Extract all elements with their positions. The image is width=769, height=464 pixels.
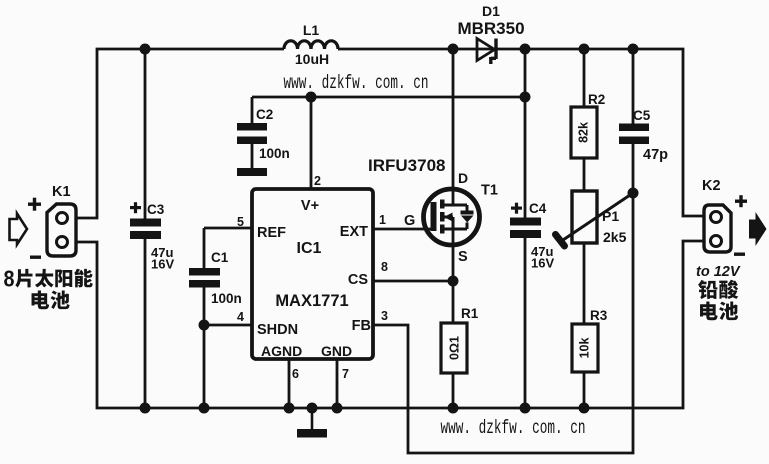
wire: C5 branch from output rail [632, 49, 635, 124]
T1 body diode [461, 211, 474, 215]
C3 plus sign [130, 206, 141, 209]
svg-text:CS: CS [348, 272, 368, 288]
K2 pin 1 circle [711, 212, 722, 223]
wire: R2 to P1 lead [583, 157, 586, 192]
svg-text:1: 1 [379, 213, 386, 227]
wire: C2 leads [251, 97, 254, 168]
node: ground rail / R3 [579, 403, 590, 414]
svg-text:R3: R3 [590, 308, 608, 323]
svg-text:D1: D1 [482, 3, 500, 19]
K2 plus sign [735, 200, 747, 203]
T1 gate bar [431, 202, 437, 231]
node: output rail / R2 junction [579, 44, 590, 55]
svg-text:SHDN: SHDN [257, 322, 298, 338]
svg-text:5: 5 [237, 215, 244, 229]
K2 text: battery [700, 302, 718, 321]
node: ground rail / pin 6 [284, 403, 295, 414]
svg-text:16V: 16V [151, 257, 174, 272]
node: diode cathode output junction [520, 44, 531, 55]
wire: C5 to wiper node [632, 143, 635, 193]
wire: CS sense lead [372, 280, 453, 283]
wire: R2 top lead from output rail [583, 49, 586, 108]
svg-text:82k: 82k [577, 122, 591, 143]
svg-text:C3: C3 [147, 202, 165, 217]
svg-text:MBR350: MBR350 [457, 19, 524, 38]
wire: top rail from L1 to K2 plus [338, 49, 705, 216]
svg-text:G: G [404, 213, 415, 229]
inductor L1 [284, 41, 338, 49]
node: ground rail / pin 7 [332, 403, 343, 414]
node: ground rail / C4 [520, 403, 531, 414]
wire: FB feedback loop [372, 193, 633, 453]
wire: diode output branch down through C4 [524, 49, 527, 408]
wire: R1 lead to ground rail [452, 372, 455, 408]
diode D1 MBR350 (schottky) [477, 39, 495, 61]
svg-text:www. dzkfw. com. cn: www. dzkfw. com. cn [441, 417, 586, 439]
svg-text:2k5: 2k5 [603, 229, 627, 245]
svg-text:C2: C2 [256, 107, 273, 122]
capacitor C1 [189, 268, 220, 276]
svg-text:4: 4 [237, 310, 244, 324]
op-amp/controller IC1 MAX1771 box [252, 189, 373, 359]
svg-text:REF: REF [257, 225, 286, 241]
svg-text:V+: V+ [301, 198, 319, 214]
wire: IC1 pin 6 lead [288, 358, 291, 408]
wire: T1 drain lead from top rail [452, 49, 455, 205]
K1 pin 2 circle [57, 237, 68, 248]
svg-text:MAX1771: MAX1771 [275, 292, 348, 310]
wire: K1 plus lead, left riser and top rail to L1 [76, 49, 284, 218]
svg-text:L1: L1 [303, 22, 320, 38]
ground symbol at C2 [237, 168, 267, 176]
svg-text:7: 7 [342, 367, 349, 381]
svg-text:T1: T1 [481, 183, 498, 199]
svg-text:R2: R2 [588, 92, 605, 107]
svg-text:to 12V: to 12V [696, 264, 741, 280]
svg-text:100n: 100n [259, 146, 290, 161]
K2 text: lead-acid [698, 280, 717, 299]
connector K2 body [704, 205, 731, 252]
potentiometer P1 body [572, 191, 597, 243]
node: ground rail / R1 [448, 403, 459, 414]
svg-text:D: D [458, 170, 468, 186]
wire: EXT gate lead [372, 228, 432, 231]
svg-text:S: S [458, 249, 468, 265]
node: ground rail / C3 [140, 403, 151, 414]
svg-text:16V: 16V [531, 256, 554, 271]
svg-text:3: 3 [381, 309, 388, 323]
node: ground rail / ground symbol [307, 403, 318, 414]
wire: K1 minus lead, bottom ground rail to K2 minus [76, 241, 705, 408]
transistor T1 IRFU3708 circle [424, 189, 480, 245]
K1 plus sign [28, 203, 41, 206]
node: top rail / T1 drain junction [448, 44, 459, 55]
wire: IC1 pin 2 riser [310, 97, 313, 191]
svg-text:K1: K1 [52, 184, 71, 200]
wire: R3 lead to ground rail [583, 371, 586, 408]
svg-text:47p: 47p [643, 147, 668, 163]
svg-text:C1: C1 [211, 250, 229, 265]
K1 text: battery line 2 [32, 291, 50, 310]
node: P1 wiper / C5 / FB junction [628, 188, 639, 199]
node: output rail / C5 junction [628, 44, 639, 55]
T1 body arrow [444, 213, 453, 222]
svg-text:10uH: 10uH [295, 51, 329, 67]
node: V+ line / output branch junction [520, 92, 531, 103]
svg-text:FB: FB [352, 318, 371, 334]
svg-text:100n: 100n [211, 291, 242, 306]
K2 pin 2 circle [711, 236, 722, 247]
connector K1 body [47, 204, 76, 256]
svg-text:EXT: EXT [340, 224, 368, 240]
capacitor C4 (polarized) [510, 218, 541, 226]
capacitor C3 (polarized) [130, 219, 161, 227]
svg-text:0Ω1: 0Ω1 [448, 336, 462, 360]
resistor R1 [441, 323, 467, 373]
wire: V+ supply line [252, 96, 525, 99]
svg-text:8: 8 [4, 266, 15, 292]
node: ground rail / SHDN branch [199, 403, 210, 414]
wire: T1 source lead to R1 [452, 229, 455, 324]
resistor R2 [571, 107, 597, 158]
K1 pin 1 circle [57, 213, 68, 224]
ground symbol (main) [311, 408, 314, 429]
svg-text:8: 8 [381, 260, 388, 274]
svg-text:IC1: IC1 [297, 240, 322, 257]
svg-text:6: 6 [292, 367, 299, 381]
T1 channel bars [440, 200, 445, 209]
svg-text:R1: R1 [461, 306, 479, 321]
svg-text:2: 2 [314, 174, 321, 188]
svg-text:K2: K2 [702, 178, 721, 194]
svg-text:10k: 10k [578, 338, 592, 359]
P1 wiper arm [560, 193, 633, 242]
wire: REF lead, C1 branch and SHDN lead to ground [204, 228, 253, 408]
node: C1 / SHDN junction [199, 320, 210, 331]
wire: IC1 pin 7 lead [336, 358, 339, 408]
node: CS / source junction [448, 276, 459, 287]
wire: C3 branch [144, 49, 147, 408]
capacitor C2 [237, 123, 267, 131]
svg-text:GND: GND [321, 343, 352, 359]
svg-text:IRFU3708: IRFU3708 [368, 156, 445, 175]
P1 wiper end stroke [556, 235, 565, 247]
K1 input arrow [10, 214, 28, 245]
C4 plus sign [511, 207, 522, 210]
T1 internal connections [442, 205, 467, 229]
svg-text:www. dzkfw. com. cn: www. dzkfw. com. cn [284, 72, 429, 94]
node: top rail / C3 junction [140, 44, 151, 55]
resistor R3 [572, 324, 598, 372]
K1 minus sign [30, 256, 41, 259]
wire: P1 to R3 lead [583, 242, 586, 325]
K2 output arrow [749, 212, 767, 246]
node: V+ line / pin2 junction [306, 92, 317, 103]
svg-text:P1: P1 [602, 208, 619, 224]
svg-text:C4: C4 [529, 201, 547, 216]
K2 minus sign [734, 253, 745, 256]
svg-text:C5: C5 [633, 108, 651, 123]
capacitor C5 [619, 124, 649, 132]
svg-text:AGND: AGND [261, 343, 302, 359]
